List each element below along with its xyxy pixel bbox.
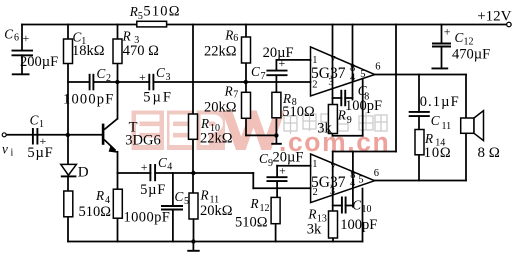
svg-text:+12V: +12V: [477, 8, 511, 24]
svg-text:5: 5: [358, 175, 363, 186]
svg-text:2: 2: [313, 187, 318, 198]
svg-text:5: 5: [138, 11, 143, 22]
svg-text:1: 1: [312, 159, 317, 170]
svg-text:1: 1: [39, 119, 44, 130]
svg-text:5µF: 5µF: [140, 182, 166, 198]
svg-text:510Ω: 510Ω: [282, 104, 315, 120]
svg-text:6: 6: [375, 61, 380, 72]
svg-text:+: +: [444, 24, 451, 38]
svg-text:C: C: [431, 113, 440, 128]
svg-text:7: 7: [330, 163, 335, 174]
svg-text:470µF: 470µF: [452, 47, 490, 63]
svg-text:510Ω: 510Ω: [235, 215, 268, 231]
svg-text:R: R: [424, 131, 433, 146]
svg-text:+: +: [23, 31, 30, 45]
svg-text:20µF: 20µF: [273, 150, 304, 166]
svg-text:C: C: [259, 151, 268, 166]
svg-text:C: C: [4, 26, 13, 41]
svg-text:22kΩ: 22kΩ: [204, 43, 237, 59]
svg-text:C: C: [30, 113, 39, 128]
svg-text:10: 10: [362, 204, 372, 215]
svg-text:0.1µF: 0.1µF: [420, 94, 460, 110]
svg-text:20kΩ: 20kΩ: [200, 203, 233, 219]
svg-text:100pF: 100pF: [345, 98, 382, 114]
svg-text:+: +: [141, 160, 148, 174]
svg-text:100pF: 100pF: [340, 217, 377, 233]
svg-text:8 Ω: 8 Ω: [478, 145, 500, 161]
svg-text:2: 2: [312, 79, 317, 90]
svg-text:+: +: [279, 164, 286, 178]
svg-text:5µF: 5µF: [27, 145, 53, 161]
svg-text:470 Ω: 470 Ω: [123, 43, 159, 59]
svg-text:7: 7: [330, 55, 335, 66]
svg-text:R: R: [224, 83, 233, 98]
svg-text:v: v: [2, 141, 8, 156]
svg-text:+: +: [139, 70, 146, 84]
svg-text:20µF: 20µF: [263, 45, 294, 61]
svg-text:i: i: [11, 147, 14, 158]
svg-text:3k: 3k: [317, 121, 332, 137]
svg-text:C: C: [156, 65, 165, 80]
svg-text:4: 4: [350, 178, 356, 189]
svg-text:11: 11: [442, 121, 452, 132]
svg-text:12: 12: [260, 203, 270, 214]
svg-text:4: 4: [350, 72, 356, 83]
svg-text:9: 9: [347, 115, 352, 126]
svg-text:6: 6: [374, 168, 379, 179]
svg-text:C: C: [97, 66, 106, 81]
svg-text:R: R: [129, 4, 138, 19]
svg-text:5: 5: [360, 69, 365, 80]
svg-text:3: 3: [330, 186, 335, 197]
svg-text:D: D: [78, 165, 89, 181]
svg-text:3: 3: [166, 72, 171, 83]
svg-text:6: 6: [233, 33, 238, 44]
svg-text:R: R: [250, 196, 259, 211]
svg-text:C: C: [455, 30, 464, 45]
svg-text:1000pF: 1000pF: [124, 210, 171, 226]
svg-text:R: R: [224, 27, 233, 42]
svg-text:10Ω: 10Ω: [424, 145, 452, 161]
svg-text:C: C: [352, 197, 361, 212]
svg-text:7: 7: [261, 71, 266, 82]
svg-text:510Ω: 510Ω: [79, 204, 112, 220]
svg-text:18kΩ: 18kΩ: [72, 43, 105, 59]
svg-text:510Ω: 510Ω: [143, 3, 180, 19]
svg-text:R: R: [95, 188, 104, 203]
svg-text:3k: 3k: [307, 222, 322, 238]
svg-text:200µF: 200µF: [20, 54, 58, 70]
svg-text:5µF: 5µF: [143, 90, 173, 106]
svg-text:R: R: [307, 206, 316, 221]
svg-text:22kΩ: 22kΩ: [200, 131, 233, 147]
svg-text:4: 4: [167, 162, 172, 173]
svg-text:6: 6: [14, 33, 19, 44]
svg-text:5: 5: [184, 196, 189, 207]
svg-text:3DG6: 3DG6: [125, 133, 160, 149]
svg-text:1000pF: 1000pF: [63, 92, 115, 108]
svg-text:R: R: [200, 188, 209, 203]
svg-text:R: R: [337, 108, 346, 123]
svg-text:R: R: [200, 116, 209, 131]
svg-text:3: 3: [328, 77, 333, 88]
svg-text:R: R: [122, 29, 131, 44]
svg-text:C: C: [158, 155, 167, 170]
svg-text:C: C: [251, 64, 260, 79]
svg-text:2: 2: [106, 73, 111, 84]
svg-text:C: C: [175, 189, 184, 204]
svg-text:20kΩ: 20kΩ: [204, 99, 237, 115]
